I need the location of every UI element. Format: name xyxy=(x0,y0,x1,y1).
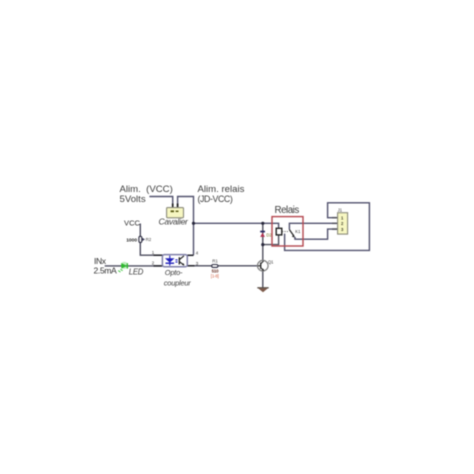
svg-text:Q1: Q1 xyxy=(268,260,274,265)
node coil return junction xyxy=(261,243,264,246)
svg-text:[1-8]: [1-8] xyxy=(211,274,219,279)
svg-text:(JD-VCC): (JD-VCC) xyxy=(198,194,233,204)
svg-text:K1: K1 xyxy=(295,229,301,234)
wire coil bottom return xyxy=(263,235,279,245)
pin 1 label J1 xyxy=(341,215,344,220)
svg-text:LED: LED xyxy=(129,267,144,276)
label J1 xyxy=(338,207,343,212)
pin 2 label J1 xyxy=(341,221,344,226)
label Opto- xyxy=(165,268,183,277)
node JD-VCC junction xyxy=(192,222,195,225)
relay K1 coil xyxy=(276,228,288,235)
wire jumper to JD-VCC rail xyxy=(178,197,194,256)
jumper Cavalier xyxy=(167,204,184,218)
svg-text:4: 4 xyxy=(196,251,199,256)
wire opto pin stubs (dark leads) xyxy=(154,255,195,266)
svg-text:2.5mA: 2.5mA xyxy=(94,266,118,276)
svg-text:Cavalier: Cavalier xyxy=(159,216,190,226)
resistor R2 1000 (vertical) xyxy=(139,236,145,242)
wire relay switch common to J1 pin2 xyxy=(289,223,337,229)
svg-text:VCC: VCC xyxy=(124,219,141,228)
resistor R1 510 (horizontal) xyxy=(212,265,218,268)
op-amp U1 opto-coupler xyxy=(162,255,187,267)
label 2.5mA xyxy=(94,266,118,276)
wire relay NO contact to J1 pin3 xyxy=(295,229,338,239)
label Alim. relais xyxy=(198,184,245,195)
pin 1 label opto xyxy=(152,250,155,255)
label 510 xyxy=(212,269,219,274)
label VCC xyxy=(124,219,141,228)
svg-text:5Volts: 5Volts xyxy=(120,194,146,205)
svg-text:coupleur: coupleur xyxy=(164,279,191,288)
label D2 xyxy=(266,233,272,238)
node diode top junction xyxy=(261,222,264,225)
label R1 xyxy=(212,259,218,264)
transistor Q1 xyxy=(258,260,269,271)
svg-text:1000: 1000 xyxy=(126,238,137,244)
svg-text:R2: R2 xyxy=(146,237,152,242)
svg-text:2: 2 xyxy=(152,261,155,266)
svg-text:Opto-: Opto- xyxy=(165,268,183,277)
pin 3 label opto xyxy=(196,261,199,266)
wire opto pin3 to transistor base xyxy=(187,265,258,267)
led D1 input (green) xyxy=(118,262,128,272)
svg-text:Alim. relais: Alim. relais xyxy=(198,184,245,195)
label INx xyxy=(94,256,107,266)
label Alim. (VCC) xyxy=(120,184,173,195)
connector J1 xyxy=(332,213,348,234)
svg-text:Relais: Relais xyxy=(275,205,300,216)
label Cavalier xyxy=(159,216,190,226)
svg-text:R1: R1 xyxy=(212,259,218,264)
wire VCC through R to opto pin1 xyxy=(140,224,162,256)
diode D2 flyback xyxy=(260,231,265,237)
svg-text:J1: J1 xyxy=(338,207,343,212)
label Q1 xyxy=(268,260,274,265)
label 5Volts xyxy=(120,194,146,205)
pin 3 label J1 xyxy=(341,227,344,232)
label [1-8] xyxy=(211,274,219,279)
relay box Relais (red annotation) xyxy=(272,217,303,246)
pin 4 label opto xyxy=(196,251,199,256)
wire 5Volts to jumper xyxy=(149,197,172,208)
wire J1 pin1 outer loop xyxy=(285,203,370,251)
svg-text:INx: INx xyxy=(94,256,107,266)
label 1000 xyxy=(126,238,137,244)
wire transistor emitter to ground xyxy=(262,271,264,288)
wire INx input to opto pin2 xyxy=(105,265,163,267)
pin 2 label opto xyxy=(152,261,155,266)
label R2 xyxy=(146,237,152,242)
wire JD-VCC horizontal to relay coil xyxy=(194,223,279,228)
wire diode branch to transistor collector xyxy=(262,223,264,260)
ground xyxy=(257,287,268,292)
label coupleur xyxy=(164,279,191,288)
label (JD-VCC) xyxy=(198,194,233,204)
label K1 xyxy=(295,229,301,234)
wire opto pin4 stub xyxy=(187,254,193,256)
relay K1 switch xyxy=(289,230,295,240)
label Relais xyxy=(275,205,300,216)
label LED xyxy=(129,267,144,276)
